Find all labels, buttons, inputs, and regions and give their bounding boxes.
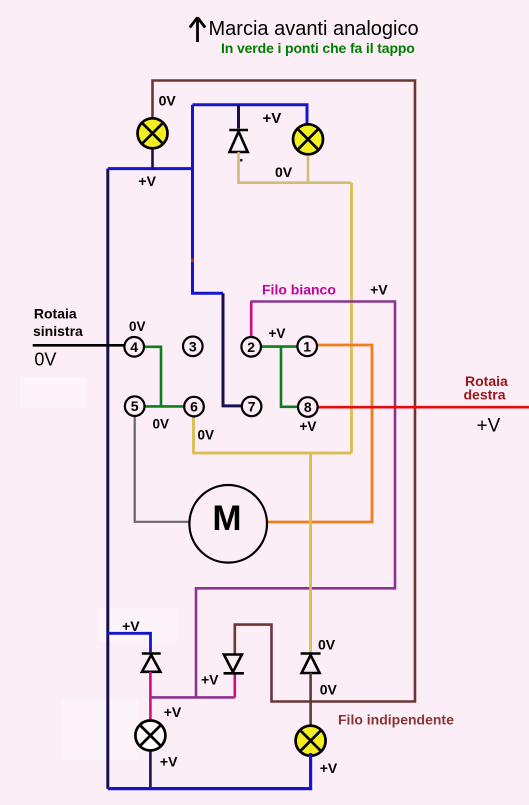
stray dot — [240, 159, 243, 162]
svg-text:6: 6 — [190, 399, 198, 415]
pin 3 — [183, 337, 203, 357]
wire blue bottom left branch — [108, 633, 151, 652]
wire purple bottom horizontal — [150, 696, 234, 699]
svg-text:+V: +V — [370, 281, 388, 297]
svg-text:+V: +V — [300, 419, 317, 434]
diode D2 — [142, 654, 161, 672]
pin 1 — [297, 337, 317, 357]
svg-text:Rotaia: Rotaia — [34, 305, 77, 321]
svg-text:+V: +V — [164, 704, 182, 720]
wire navy left border — [106, 169, 109, 789]
diode D3 — [224, 655, 244, 674]
wire gold vertical — [350, 183, 353, 453]
red tick on blue wire — [191, 259, 194, 263]
wire blue bottom rail — [108, 753, 311, 789]
svg-text:7: 7 — [248, 398, 256, 414]
lamp L1 stub — [151, 149, 154, 168]
wire navy lamp L3 to bottom — [149, 752, 152, 789]
wire magenta filo bianco to pin2 — [250, 302, 253, 337]
svg-text:8: 8 — [304, 399, 312, 415]
svg-text:0V: 0V — [153, 417, 170, 432]
wire maroon D4 to lamp L4 — [309, 673, 312, 725]
pin 5 — [125, 396, 145, 416]
svg-text:+V: +V — [160, 753, 178, 769]
lamp L1 — [138, 118, 168, 148]
svg-text:1: 1 — [303, 338, 311, 354]
svg-text:In verde i ponti che fa il tap: In verde i ponti che fa il tappo — [221, 40, 415, 56]
title arrow — [190, 17, 205, 42]
motor M1 — [189, 485, 267, 563]
wire navy to pin7 — [223, 293, 241, 406]
wire green pin4 to 5-6 — [145, 347, 161, 407]
svg-text:4: 4 — [130, 339, 138, 355]
svg-text:sinistra: sinistra — [33, 323, 83, 339]
svg-text:destra: destra — [464, 387, 506, 403]
svg-text:+V: +V — [138, 173, 156, 189]
pin 6 — [184, 397, 204, 417]
diode D4 — [301, 654, 321, 674]
wire gold down to diode D4 — [309, 453, 312, 653]
wire red rotaia destra — [318, 406, 529, 409]
svg-text:3: 3 — [189, 338, 197, 354]
wire green pin2 to pin1 — [262, 345, 297, 348]
lamp L3 — [135, 721, 165, 751]
svg-text:Filo bianco: Filo bianco — [262, 282, 336, 298]
svg-text:+V: +V — [122, 618, 140, 634]
svg-text:+V: +V — [269, 326, 286, 341]
svg-text:+V: +V — [477, 415, 501, 436]
wire gold pin6 down — [194, 417, 352, 453]
wire tan under diode and lamp L2 — [239, 152, 352, 183]
svg-text:Marcia avanti analogico: Marcia avanti analogico — [209, 18, 419, 40]
svg-text:0V: 0V — [198, 428, 215, 443]
wire blue top loop — [108, 167, 193, 170]
svg-text:0V: 0V — [318, 636, 336, 652]
pin 2 — [241, 337, 261, 357]
svg-text:+V: +V — [263, 110, 282, 127]
wire black rotaia sinistra — [33, 344, 124, 347]
svg-text:0V: 0V — [275, 164, 293, 180]
svg-text:0V: 0V — [320, 682, 338, 698]
wire magenta D2 to lamp L3 — [149, 672, 152, 720]
lamp L4 — [296, 726, 326, 756]
background patch — [98, 608, 178, 642]
svg-text:M: M — [212, 499, 241, 538]
svg-text:2: 2 — [247, 339, 255, 355]
svg-text:0V: 0V — [159, 93, 177, 109]
wire brown tappo border top — [153, 81, 416, 702]
pin 4 — [124, 337, 144, 357]
background patch — [62, 700, 138, 760]
wire green to pin8 — [281, 347, 297, 407]
wire magenta D3 stub — [234, 674, 237, 697]
diode D1 — [229, 130, 248, 152]
svg-text:0V: 0V — [34, 350, 56, 370]
wire orange pin1 to motor — [268, 345, 372, 522]
svg-text:Filo indipendente: Filo indipendente — [338, 712, 454, 728]
svg-text:0V: 0V — [129, 319, 146, 334]
pin 7 — [242, 397, 262, 417]
pin 8 — [298, 397, 318, 417]
svg-text:+V: +V — [320, 760, 338, 776]
background patch — [20, 377, 86, 408]
wire green pin5 to pin6 — [145, 405, 183, 408]
wire gray pin5 to motor — [135, 416, 189, 522]
svg-text:+V: +V — [201, 671, 219, 687]
svg-text:5: 5 — [131, 398, 139, 414]
wire navy diode D1 stub — [237, 105, 240, 129]
wire purple loop — [196, 302, 395, 698]
lamp L2 — [293, 124, 323, 154]
